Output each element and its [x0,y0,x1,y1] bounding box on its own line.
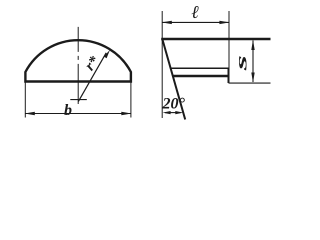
svg-text:s: s [233,55,251,72]
right vertical extension line [228,11,230,68]
slanted left edge (20 deg) [162,39,185,120]
left view: circular segment outline [25,40,130,81]
radius arrow [78,53,106,102]
strip bottom line [173,75,229,78]
svg-text:b: b [64,102,72,119]
s bottom extension [229,82,271,84]
angle double arrow [165,112,181,114]
right edge of strip [228,68,230,84]
dimension line s [252,41,254,83]
dimension line l [162,21,229,23]
center tick [70,99,87,101]
extension line left (b) [24,83,26,118]
strip top line [171,67,229,69]
top edge of profile + s top extension [161,38,270,40]
left vertical extension line [161,11,163,118]
dimension line b [25,113,130,115]
centerline [77,27,79,104]
svg-text:ℓ: ℓ [192,2,200,22]
extension line right (b) [130,83,132,118]
svg-text:20°: 20° [162,96,186,113]
